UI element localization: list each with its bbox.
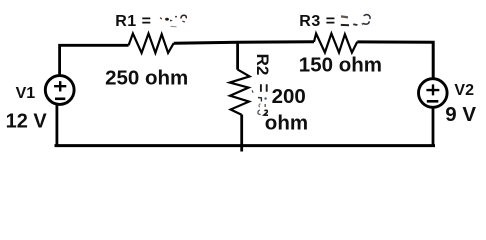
svg-text:250 ohm: 250 ohm	[105, 66, 188, 89]
erased value of R2 (remnant specks)	[252, 90, 268, 115]
voltage source V1	[45, 76, 74, 105]
erased value of R3 (remnant specks)	[341, 15, 370, 26]
svg-text:9 V: 9 V	[445, 103, 476, 126]
svg-text:V1: V1	[16, 85, 36, 102]
wire from V1 bottom to bottom rail	[56, 104, 59, 147]
bottom wire	[55, 144, 436, 147]
wire from V2 bottom to bottom rail	[432, 107, 435, 145]
svg-text:V2: V2	[454, 82, 474, 99]
wire from V1 top to R1 left lead (left corner)	[60, 45, 129, 76]
svg-text:200: 200	[272, 85, 306, 108]
voltage source V2	[419, 79, 448, 108]
resistor R3	[314, 34, 357, 53]
svg-text:R3 =: R3 =	[299, 13, 335, 30]
wire from R2 bottom through bottom rail	[240, 115, 243, 152]
resistor R2	[230, 69, 250, 114]
label R2 equals (rotated)	[261, 84, 267, 92]
svg-text:ohm: ohm	[265, 111, 308, 134]
wire from R3 right lead to V2 top (right corner)	[357, 42, 433, 79]
wire from node A down to R2 top	[236, 41, 239, 69]
svg-text:12 V: 12 V	[6, 110, 48, 132]
wire from R1 right lead to R3 left lead through node A	[174, 42, 314, 43]
svg-text:R2: R2	[253, 54, 272, 76]
resistor R1	[129, 34, 174, 53]
svg-text:150 ohm: 150 ohm	[299, 54, 382, 77]
svg-text:R1 =: R1 =	[115, 13, 151, 30]
erased value of R1 (remnant specks)	[160, 15, 186, 27]
